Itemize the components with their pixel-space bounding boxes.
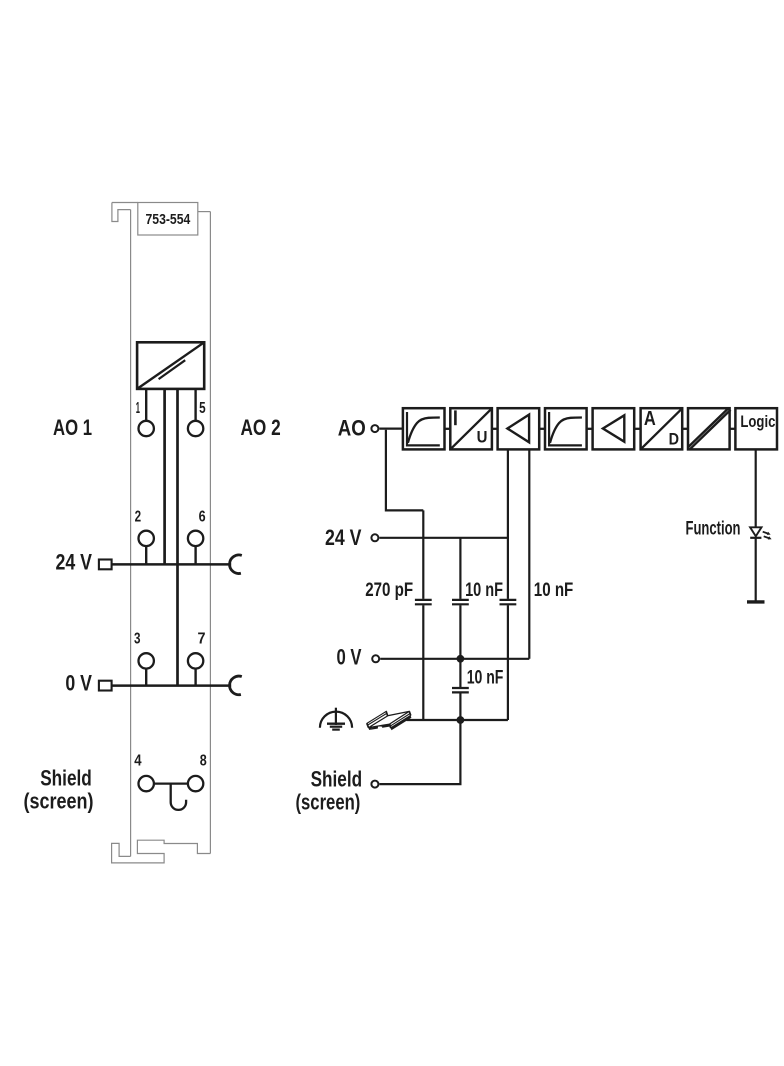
LED triangle (750, 527, 761, 536)
earth bar 2 (330, 726, 342, 728)
earth bar 3 (332, 728, 340, 730)
block B2 I/U converter (450, 408, 492, 449)
wire DAC to 24V bus (163, 389, 166, 565)
wire 0V down to C4 (459, 659, 461, 687)
svg-text:0 V: 0 V (337, 644, 362, 669)
termination bar (747, 600, 765, 603)
wire C2 to 0V line (459, 605, 461, 659)
block B7 isolation (688, 408, 730, 449)
terminal 1 (139, 421, 154, 436)
0V bus line (112, 684, 232, 687)
wire stub terminal 7 to 0V bus (194, 669, 196, 686)
wire AO to block B1 (379, 428, 403, 430)
module top-left tab (112, 203, 131, 222)
B5 triangle (603, 415, 624, 441)
svg-text:AO: AO (338, 416, 366, 441)
svg-text:753-554: 753-554 (146, 212, 191, 228)
wire C4 to rail (459, 693, 461, 720)
B3 triangle (507, 415, 529, 443)
shield link bar terminals 4-8 (154, 782, 188, 784)
module foot outline (112, 840, 211, 863)
module right edge (209, 212, 211, 854)
block B4 filter (545, 408, 587, 449)
LED cathode bar (750, 537, 761, 539)
B1 curve (408, 418, 440, 443)
module right link from label box (198, 211, 211, 213)
svg-text:2: 2 (135, 509, 142, 526)
earth stem (335, 708, 337, 725)
earth bar 1 (327, 723, 345, 725)
svg-text:(screen): (screen) (296, 790, 361, 815)
wire B3 right stub down to 0V line (528, 449, 530, 658)
0V fork contact (230, 676, 242, 695)
block B1 filter (403, 408, 445, 449)
svg-text:1: 1 (136, 400, 140, 417)
24V bus line (112, 563, 232, 566)
shield terminal circle (371, 781, 378, 788)
wire 270pF node down to cap (422, 510, 424, 599)
svg-text:4: 4 (134, 752, 141, 769)
B1 axes (407, 412, 440, 445)
svg-text:7: 7 (198, 630, 206, 647)
terminal 7 (188, 653, 203, 668)
svg-text:(screen): (screen) (24, 789, 94, 814)
wire B4-B5 (587, 428, 593, 430)
svg-text:0 V: 0 V (65, 671, 92, 696)
capacitor C1 270pF plates (415, 600, 432, 604)
DAC diagonal (137, 342, 204, 389)
DIN rail clip symbol (367, 711, 412, 732)
svg-text:24 V: 24 V (325, 525, 362, 550)
DAC secondary diagonal (159, 360, 186, 379)
B4 curve (550, 418, 582, 443)
terminal 2 (139, 531, 154, 546)
terminal 8 (188, 776, 203, 791)
svg-text:8: 8 (200, 752, 207, 769)
svg-text:3: 3 (134, 630, 141, 647)
wire stub terminal 3 to 0V bus (145, 669, 147, 686)
AO terminal circle (371, 425, 378, 432)
terminal 4 (139, 776, 154, 791)
wire 24V node down to C2 (459, 538, 461, 599)
LED light arrows (763, 532, 769, 538)
shield clamp hook (171, 784, 186, 810)
svg-text:24 V: 24 V (56, 549, 93, 574)
wire B3 left stub down through C3 (507, 449, 509, 599)
svg-text:AO 2: AO 2 (241, 415, 281, 440)
label box 753-554 (138, 203, 198, 236)
junction dot 0V/C4 (457, 655, 465, 663)
block B3 amplifier (498, 408, 540, 449)
wire B1-B2 (445, 428, 451, 430)
wire LED to termination (755, 538, 757, 602)
terminal 3 (139, 653, 154, 668)
wire stub terminal 2 to 24V bus (145, 546, 147, 564)
svg-text:10 nF: 10 nF (534, 579, 574, 601)
module left edge (130, 210, 132, 857)
0V plug square (99, 681, 112, 691)
module outline top edge (112, 202, 138, 204)
svg-text:A: A (644, 408, 656, 430)
earth symbol arc (320, 712, 352, 728)
svg-text:10 nF: 10 nF (465, 579, 503, 601)
svg-text:Function: Function (686, 517, 741, 539)
wire B6-B7 (682, 428, 688, 430)
terminal 6 (188, 531, 203, 546)
rail line (407, 719, 508, 721)
24V plug square (99, 560, 112, 570)
24V terminal circle (371, 534, 378, 541)
wire 24V to B3 left stub node (379, 537, 508, 539)
svg-text:U: U (477, 429, 488, 447)
B7 diagonal 2 (690, 410, 731, 449)
B2 letter I (454, 410, 457, 425)
wire C3 to rail (507, 605, 509, 720)
wire Logic down to LED (755, 449, 757, 527)
0V wire (380, 658, 529, 660)
svg-text:6: 6 (199, 509, 206, 526)
svg-text:270 pF: 270 pF (365, 579, 413, 601)
block B5 amplifier (593, 408, 635, 449)
0V terminal circle (372, 655, 379, 662)
block B6 A/D converter (641, 408, 683, 449)
block B8 Logic (735, 408, 777, 449)
svg-text:Shield: Shield (311, 766, 363, 791)
wire B3-B4 (539, 428, 545, 430)
capacitor C2 10nF plates (452, 600, 469, 604)
svg-text:5: 5 (199, 400, 206, 417)
24V fork contact (230, 555, 242, 574)
terminal 5 (188, 421, 203, 436)
svg-text:Shield: Shield (40, 765, 92, 790)
capacitor C3 10nF plates (500, 600, 517, 604)
wire stub pin1 from DAC (145, 389, 147, 420)
wire B7-B8 (730, 428, 736, 430)
wire DAC to 0V bus (176, 389, 179, 686)
wire stub pin5 from DAC (194, 389, 196, 420)
svg-text:10 nF: 10 nF (467, 666, 504, 688)
svg-text:D: D (669, 429, 679, 448)
wire B2-B3 (492, 428, 498, 430)
wire C1 to rail (422, 605, 424, 720)
wire AO branch to 270pF node (386, 430, 423, 511)
wire stub terminal 6 to 24V bus (194, 546, 196, 564)
DAC block U1 (137, 342, 204, 389)
B6 diagonal (642, 410, 681, 449)
svg-text:AO 1: AO 1 (53, 415, 92, 440)
svg-text:Logic: Logic (740, 412, 775, 431)
B7 diagonal 1 (688, 408, 729, 448)
B4 axes (549, 412, 582, 445)
shield wire (379, 720, 460, 784)
B2 diagonal (452, 410, 491, 449)
junction dot rail (457, 716, 465, 724)
capacitor C4 10nF plates (452, 688, 469, 692)
wire B5-B6 (634, 428, 640, 430)
